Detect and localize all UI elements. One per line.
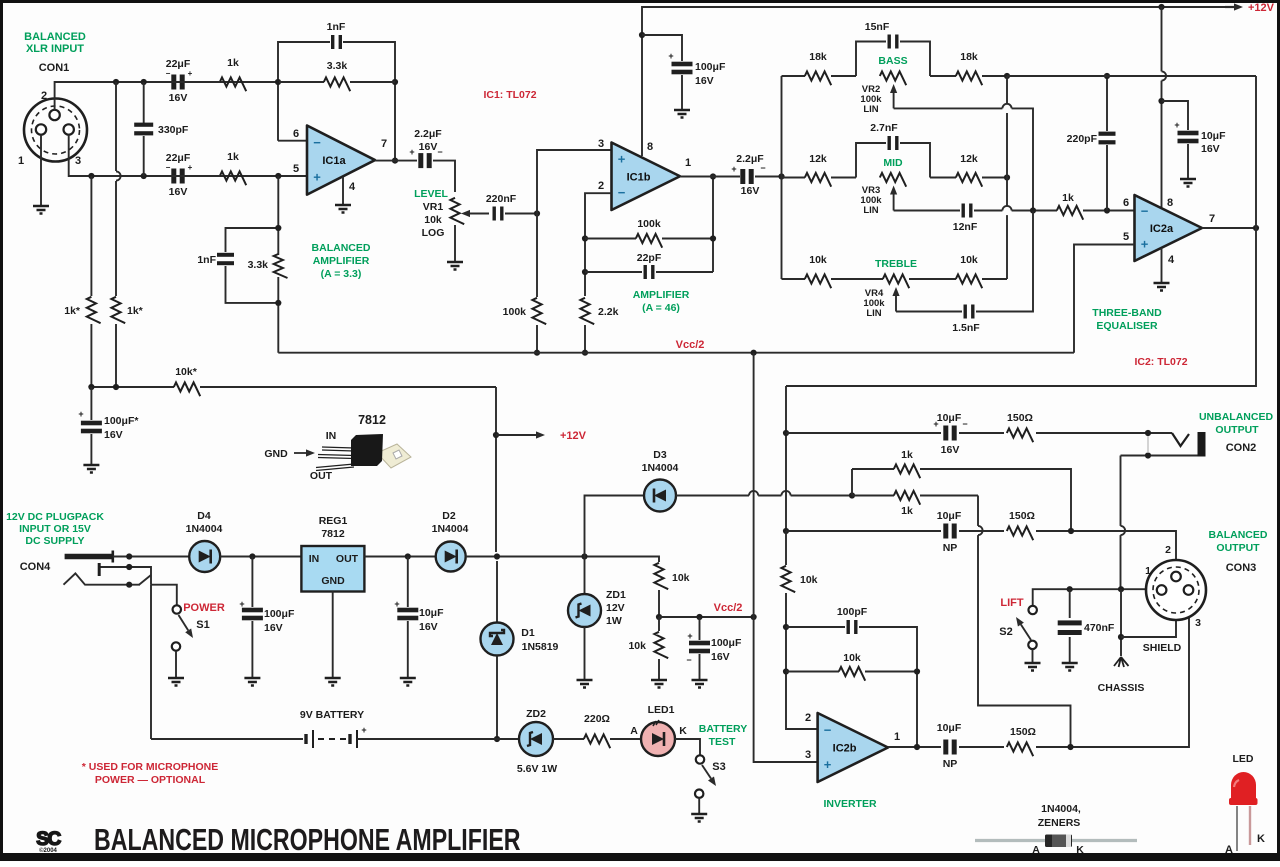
label +12V mid arrow	[495, 387, 497, 552]
svg-text:12nF: 12nF	[953, 221, 978, 233]
svg-text:10k: 10k	[843, 652, 861, 664]
svg-text:LOG: LOG	[422, 227, 445, 239]
svg-text:220Ω: 220Ω	[584, 713, 610, 725]
svg-text:TREBLE: TREBLE	[875, 258, 917, 270]
connector CON2 jack	[1172, 433, 1189, 446]
wire pin2 to input row	[55, 82, 279, 110]
svg-text:7812: 7812	[321, 528, 345, 540]
svg-text:1: 1	[1145, 565, 1151, 577]
svg-text:100pF: 100pF	[837, 606, 868, 618]
resistor 1k* left phantom	[90, 176, 92, 296]
ground S3	[691, 814, 707, 822]
svg-text:1k: 1k	[901, 449, 913, 461]
svg-text:1: 1	[894, 731, 900, 743]
potentiometer VR1 10k LOG	[450, 198, 464, 224]
node A phantom feed	[849, 492, 855, 498]
svg-text:LIN: LIN	[863, 205, 878, 216]
ground 10uF IC2 supply	[1180, 179, 1196, 187]
svg-text:100k: 100k	[637, 218, 661, 230]
svg-text:−: −	[313, 135, 321, 150]
svg-text:5: 5	[1123, 231, 1129, 243]
wire bass row to feedback corner	[1007, 75, 1256, 77]
svg-text:LED1: LED1	[648, 704, 675, 716]
svg-text:D3: D3	[653, 449, 667, 461]
svg-text:10k: 10k	[809, 254, 827, 266]
wire +12V top rail	[642, 7, 1238, 156]
resistor 150ohm balanced pin3	[959, 746, 1004, 748]
svg-text:+: +	[1174, 120, 1179, 130]
svg-text:OUT: OUT	[336, 553, 359, 565]
wire IC2a pin8 vertical	[1161, 7, 1163, 71]
svg-text:+: +	[824, 757, 832, 772]
wire IC2a pin5 to Vcc/2	[1074, 245, 1135, 353]
wire 2.2uF to VR1	[433, 161, 455, 192]
svg-text:2: 2	[1165, 544, 1171, 556]
svg-text:1N5819: 1N5819	[522, 641, 559, 653]
resistor 3.3k bias	[274, 254, 288, 278]
svg-text:K: K	[1076, 844, 1084, 856]
svg-text:−: −	[437, 147, 442, 157]
wire pin3 to lower input row	[69, 135, 307, 177]
svg-text:BALANCED: BALANCED	[24, 31, 86, 43]
wire ZD1 to ground	[584, 627, 586, 679]
wire to CON2	[1036, 432, 1172, 434]
wire pin6 row	[974, 210, 1002, 212]
svg-text:−: −	[1141, 204, 1149, 219]
svg-text:100μF: 100μF	[264, 608, 295, 620]
capacitor 10uF NP balanced pin3	[943, 740, 948, 755]
svg-text:CON1: CON1	[39, 62, 70, 74]
wire REG1 out	[364, 556, 435, 558]
capacitor 470nF	[1069, 589, 1071, 618]
wire IC1b output	[680, 176, 740, 178]
svg-text:−: −	[824, 722, 832, 737]
resistor 12k mid right	[930, 177, 956, 179]
op-amp IC1b	[612, 143, 681, 211]
svg-text:1.5nF: 1.5nF	[952, 322, 980, 334]
svg-text:AMPLIFIER: AMPLIFIER	[633, 289, 690, 301]
capacitor 22pF IC1b feedback	[585, 271, 642, 273]
ground 100uF Vcc/2	[692, 680, 708, 688]
svg-text:IC1: TL072: IC1: TL072	[483, 89, 536, 101]
svg-text:IC2b: IC2b	[833, 743, 857, 755]
wire LED1 to S3	[675, 739, 700, 755]
resistor 220ohm	[553, 738, 584, 740]
resistor 1k to IC2a pin6	[1057, 206, 1083, 220]
svg-text:10k*: 10k*	[175, 366, 198, 378]
svg-text:3: 3	[1195, 617, 1201, 629]
ground 10k divider	[651, 680, 667, 688]
node cold row junctions	[88, 173, 94, 179]
wire tone right bus	[1006, 76, 1008, 104]
svg-text:2: 2	[805, 712, 811, 724]
svg-text:+: +	[394, 599, 399, 609]
svg-text:IN: IN	[309, 553, 320, 565]
wire D4 to REG1	[220, 556, 301, 558]
svg-text:16V: 16V	[741, 185, 760, 197]
jack middle contact	[99, 567, 151, 585]
wire to XLR pin3	[1036, 594, 1189, 747]
svg-text:−: −	[166, 163, 171, 172]
capacitor 100uF 16V Vcc/2	[699, 617, 701, 640]
wire x497 vertical to D1	[496, 561, 498, 624]
svg-text:5: 5	[293, 163, 299, 175]
node Vcc/2 divider	[656, 614, 662, 620]
diode D2 1N4004	[436, 542, 466, 572]
svg-text:CON2: CON2	[1226, 442, 1257, 454]
svg-text:16V: 16V	[419, 621, 438, 633]
capacitor 10uF 16V IC2 supply	[1162, 101, 1189, 130]
wiper arrow VR1	[470, 213, 489, 215]
svg-text:4: 4	[349, 181, 356, 193]
wire shield stub	[1121, 619, 1176, 637]
svg-text:LED: LED	[1233, 753, 1254, 765]
wire node to balanced pin3 path	[977, 496, 979, 526]
resistor 12k mid left	[782, 177, 806, 179]
resistor 18k bass right	[930, 75, 956, 77]
svg-text:+12V: +12V	[560, 430, 587, 442]
ground 470nF	[1062, 663, 1078, 671]
svg-text:100k: 100k	[503, 306, 527, 318]
wire hot row segments	[165, 81, 220, 83]
wire IC2a signal bus	[785, 386, 787, 531]
wire 1.5nF to wiper bus	[976, 211, 1033, 312]
node pin5 bias junction	[275, 173, 281, 179]
ground S1	[168, 678, 184, 686]
svg-text:7: 7	[381, 138, 387, 150]
svg-text:+: +	[313, 169, 321, 184]
svg-text:1nF: 1nF	[327, 21, 346, 33]
svg-text:10μF: 10μF	[937, 510, 962, 522]
svg-text:S3: S3	[712, 761, 725, 773]
svg-text:12k: 12k	[809, 153, 827, 165]
svg-text:THREE-BAND: THREE-BAND	[1092, 307, 1162, 319]
svg-text:10k: 10k	[628, 640, 646, 652]
svg-text:CON3: CON3	[1226, 562, 1257, 574]
svg-text:(A = 46): (A = 46)	[642, 302, 680, 314]
resistor 1k* right phantom	[115, 82, 117, 171]
svg-text:1k: 1k	[1062, 192, 1074, 204]
svg-text:INPUT OR 15V: INPUT OR 15V	[19, 523, 91, 535]
svg-text:BATTERY: BATTERY	[699, 723, 747, 735]
diode D3 1N4004	[585, 496, 645, 557]
svg-text:XLR INPUT: XLR INPUT	[26, 43, 84, 55]
svg-text:ZD2: ZD2	[526, 708, 546, 720]
svg-text:+: +	[409, 147, 414, 157]
svg-text:220pF: 220pF	[1067, 133, 1098, 145]
svg-text:+: +	[361, 725, 366, 735]
svg-text:ZD1: ZD1	[606, 589, 626, 601]
svg-text:LEVEL: LEVEL	[414, 188, 448, 200]
svg-text:4: 4	[1168, 254, 1175, 266]
svg-text:ZENERS: ZENERS	[1038, 817, 1081, 829]
wire junction up to IC1b pin3	[537, 150, 612, 214]
svg-text:DC SUPPLY: DC SUPPLY	[25, 535, 84, 547]
svg-text:CHASSIS: CHASSIS	[1098, 682, 1145, 694]
svg-text:16V: 16V	[941, 444, 960, 456]
wire 2.2uF to tone stack	[755, 176, 782, 178]
svg-text:2.2k: 2.2k	[598, 306, 619, 318]
svg-text:Vcc/2: Vcc/2	[714, 602, 743, 614]
svg-text:10μF: 10μF	[1201, 130, 1226, 142]
capacitor 12nF	[962, 204, 965, 218]
svg-text:UNBALANCED: UNBALANCED	[1199, 411, 1273, 423]
capacitor 10uF 16V reg out	[407, 557, 409, 608]
chassis symbol	[1114, 657, 1129, 667]
wire IC1b pin2 loop	[585, 193, 612, 296]
capacitor 100uF 16V rail	[642, 35, 682, 61]
svg-text:IC1b: IC1b	[627, 171, 651, 183]
op-amp IC1a	[307, 126, 375, 195]
wire D2 to rail junctions	[466, 557, 659, 563]
regulator REG1 7812	[301, 546, 364, 592]
svg-text:IC1a: IC1a	[322, 155, 346, 167]
svg-text:LIFT: LIFT	[1000, 597, 1023, 609]
svg-text:D2: D2	[442, 510, 456, 522]
svg-text:16V: 16V	[104, 429, 123, 441]
svg-text:2: 2	[41, 90, 47, 102]
svg-text:3: 3	[598, 138, 604, 150]
svg-text:OUTPUT: OUTPUT	[1215, 424, 1259, 436]
wire D3 row to node A	[676, 495, 749, 497]
svg-text:−: −	[962, 419, 967, 429]
svg-text:2: 2	[598, 180, 604, 192]
wire mid wiper to pin6 row	[894, 210, 960, 212]
ground VR1	[447, 262, 463, 270]
svg-text:EQUALISER: EQUALISER	[1096, 320, 1158, 332]
resistor 10k divider upper	[654, 563, 668, 589]
wire CON2 sleeve	[1121, 455, 1198, 457]
wire IC2b output	[888, 746, 941, 748]
svg-text:10μF: 10μF	[419, 607, 444, 619]
svg-text:+: +	[239, 599, 244, 609]
svg-text:VR1: VR1	[423, 201, 444, 213]
svg-text:18k: 18k	[809, 51, 827, 63]
svg-text:16V: 16V	[1201, 143, 1220, 155]
svg-text:1W: 1W	[606, 615, 622, 627]
capacitor 22uF upper	[171, 75, 176, 90]
wiper arrow VR4	[895, 296, 897, 312]
battery 9V	[151, 738, 303, 740]
svg-text:3.3k: 3.3k	[327, 60, 348, 72]
node hot row junctions	[113, 79, 119, 85]
ground 100uF rail	[674, 110, 690, 118]
capacitor 330pF	[143, 82, 145, 123]
resistor 10k*	[174, 382, 200, 396]
svg-text:S2: S2	[999, 626, 1012, 638]
diode D4 1N4004	[145, 556, 189, 558]
wire to XLR pin2	[1036, 531, 1176, 572]
wire Vcc/2 bias to IC2b pin3	[753, 353, 755, 617]
svg-text:1N4004: 1N4004	[432, 523, 469, 535]
svg-text:150Ω: 150Ω	[1010, 726, 1036, 738]
svg-text:470nF: 470nF	[1084, 622, 1115, 634]
capacitor 220nF	[493, 207, 496, 221]
svg-text:−: −	[686, 655, 691, 665]
svg-text:6: 6	[1123, 197, 1129, 209]
svg-text:BALANCED MICROPHONE AMPLIFIER: BALANCED MICROPHONE AMPLIFIER	[94, 822, 521, 857]
svg-text:K: K	[679, 725, 687, 737]
wire sleeve to battery row	[150, 585, 152, 739]
svg-text:1: 1	[685, 157, 691, 169]
svg-text:16V: 16V	[169, 92, 188, 104]
diode ZD2 5.6V 1W zener	[519, 722, 553, 756]
wire chassis vertical	[1120, 589, 1122, 656]
svg-text:+: +	[78, 409, 83, 419]
svg-text:+: +	[668, 51, 673, 61]
wire tone left bus	[781, 76, 783, 279]
svg-text:150Ω: 150Ω	[1009, 510, 1035, 522]
resistor 1k lower output link	[852, 495, 894, 497]
svg-text:+12V: +12V	[1248, 2, 1275, 14]
svg-text:10k: 10k	[960, 254, 978, 266]
svg-text:LIN: LIN	[866, 308, 881, 319]
ground REG1	[325, 678, 341, 686]
capacitor 2.7nF mid bracket	[856, 143, 886, 178]
svg-text:1k*: 1k*	[64, 305, 81, 317]
capacitor 100uF 16V input	[251, 557, 253, 608]
diode D1 1N5819	[481, 623, 514, 656]
capacitor 15nF bass bracket	[856, 42, 886, 77]
svg-text:POWER — OPTIONAL: POWER — OPTIONAL	[95, 774, 206, 786]
wire pin1 to ground	[40, 135, 42, 206]
ground 100uF input	[244, 678, 260, 686]
svg-text:©2004: ©2004	[39, 847, 57, 854]
wire D1 to battery row	[496, 656, 498, 740]
svg-text:+: +	[188, 69, 193, 78]
diode ZD1 12V 1W zener	[584, 557, 586, 595]
svg-text:−: −	[760, 163, 765, 173]
svg-text:S1: S1	[196, 619, 209, 631]
svg-text:−: −	[618, 185, 626, 200]
svg-text:100μF*: 100μF*	[104, 415, 139, 427]
svg-text:10μF: 10μF	[937, 722, 962, 734]
switch S1 POWER	[173, 605, 181, 613]
svg-text:REG1: REG1	[319, 515, 348, 527]
svg-text:* USED FOR MICROPHONE: * USED FOR MICROPHONE	[82, 761, 219, 773]
ground IC1a pin4	[335, 205, 351, 213]
svg-text:8: 8	[647, 141, 653, 153]
wire battery row to ZD2	[497, 738, 518, 740]
resistor 2.2k to Vcc/2	[580, 298, 594, 324]
wire 1nF to right vertical	[343, 42, 395, 161]
connector CON4 DC jack	[65, 554, 113, 560]
resistor 100k IC1b feedback	[585, 238, 636, 240]
svg-text:150Ω: 150Ω	[1007, 412, 1033, 424]
svg-text:INVERTER: INVERTER	[823, 798, 877, 810]
wire IC2a pin4 to ground	[1161, 248, 1163, 282]
connector CON1 XLR	[24, 99, 87, 162]
svg-text:7812: 7812	[358, 413, 386, 427]
svg-text:330pF: 330pF	[158, 124, 189, 136]
wire bias network verticals	[277, 176, 279, 228]
svg-text:+: +	[731, 164, 736, 174]
svg-text:BALANCED: BALANCED	[312, 242, 371, 254]
capacitor 1nF bias	[217, 253, 234, 257]
svg-text:1nF: 1nF	[197, 254, 216, 266]
svg-text:15nF: 15nF	[865, 21, 890, 33]
capacitor 100uF* 16V	[90, 387, 92, 420]
svg-text:10k: 10k	[800, 574, 818, 586]
wire ground lift row	[1033, 589, 1157, 605]
svg-text:220nF: 220nF	[486, 193, 517, 205]
svg-text:+: +	[618, 151, 626, 166]
resistor 10k treble right	[909, 278, 956, 280]
capacitor 22uF lower	[171, 169, 176, 184]
svg-text:2.7nF: 2.7nF	[870, 122, 898, 134]
svg-text:(A = 3.3): (A = 3.3)	[321, 268, 362, 280]
resistor 100k to Vcc/2	[536, 214, 538, 298]
svg-text:A: A	[1225, 844, 1233, 856]
svg-text:+: +	[1141, 237, 1149, 252]
svg-text:IN: IN	[326, 430, 337, 442]
resistor 18k bass left	[782, 75, 806, 77]
capacitor 1.5nF	[964, 305, 967, 319]
resistor 1k upper output link	[851, 469, 853, 496]
svg-text:OUT: OUT	[310, 470, 333, 482]
svg-text:3.3k: 3.3k	[248, 259, 269, 271]
svg-text:SHIELD: SHIELD	[1143, 642, 1182, 654]
svg-text:1k: 1k	[227, 57, 239, 69]
svg-text:GND: GND	[264, 448, 288, 460]
wire CON2 sleeve to ground bus	[1120, 456, 1122, 526]
capacitor 10uF NP balanced pin2	[786, 530, 941, 532]
svg-text:1k: 1k	[901, 505, 913, 517]
svg-text:10k: 10k	[424, 214, 442, 226]
svg-text:+: +	[687, 631, 692, 641]
svg-text:2.2μF: 2.2μF	[414, 128, 442, 140]
resistor 1k lower input	[220, 171, 246, 185]
svg-text:−: −	[166, 69, 171, 78]
svg-text:1N4004,: 1N4004,	[1041, 803, 1081, 815]
wire IC1a output	[375, 160, 417, 162]
svg-text:D1: D1	[521, 627, 535, 639]
svg-text:6: 6	[293, 128, 299, 140]
resistor 10k divider lower	[658, 617, 660, 631]
svg-text:A: A	[1032, 844, 1040, 856]
capacitor 10uF 16V unbalanced out	[786, 432, 941, 434]
jack sleeve contact	[64, 573, 141, 584]
ground 10uF reg out	[400, 678, 416, 686]
potentiometer VR3 100k LIN	[880, 173, 906, 187]
svg-text:18k: 18k	[960, 51, 978, 63]
resistor 3.3k feedback	[279, 81, 324, 83]
wire cold row segments	[165, 175, 220, 177]
capacitor 2.2uF IC1a out	[418, 153, 423, 168]
svg-text:1k: 1k	[227, 151, 239, 163]
wire phantom rail	[91, 386, 174, 388]
svg-text:7: 7	[1209, 213, 1215, 225]
svg-text:3: 3	[805, 749, 811, 761]
svg-text:100μF: 100μF	[711, 637, 742, 649]
op-amp IC2b	[818, 713, 888, 782]
diode package drawing	[975, 839, 1137, 842]
svg-text:D4: D4	[197, 510, 211, 522]
ground XLR pin1	[33, 206, 49, 214]
svg-text:BALANCED: BALANCED	[1209, 529, 1268, 541]
svg-text:12V DC PLUGPACK: 12V DC PLUGPACK	[6, 511, 104, 523]
svg-text:IC2a: IC2a	[1150, 223, 1174, 235]
svg-text:NP: NP	[943, 542, 958, 554]
svg-text:10k: 10k	[672, 572, 690, 584]
svg-text:16V: 16V	[264, 622, 283, 634]
svg-text:100μF: 100μF	[695, 61, 726, 73]
svg-text:1: 1	[18, 155, 24, 167]
svg-text:Vcc/2: Vcc/2	[676, 339, 705, 351]
switch S2 ground lift	[1029, 606, 1037, 614]
wire treble wiper row	[896, 311, 962, 313]
wire REG1 GND to ground	[332, 591, 334, 677]
